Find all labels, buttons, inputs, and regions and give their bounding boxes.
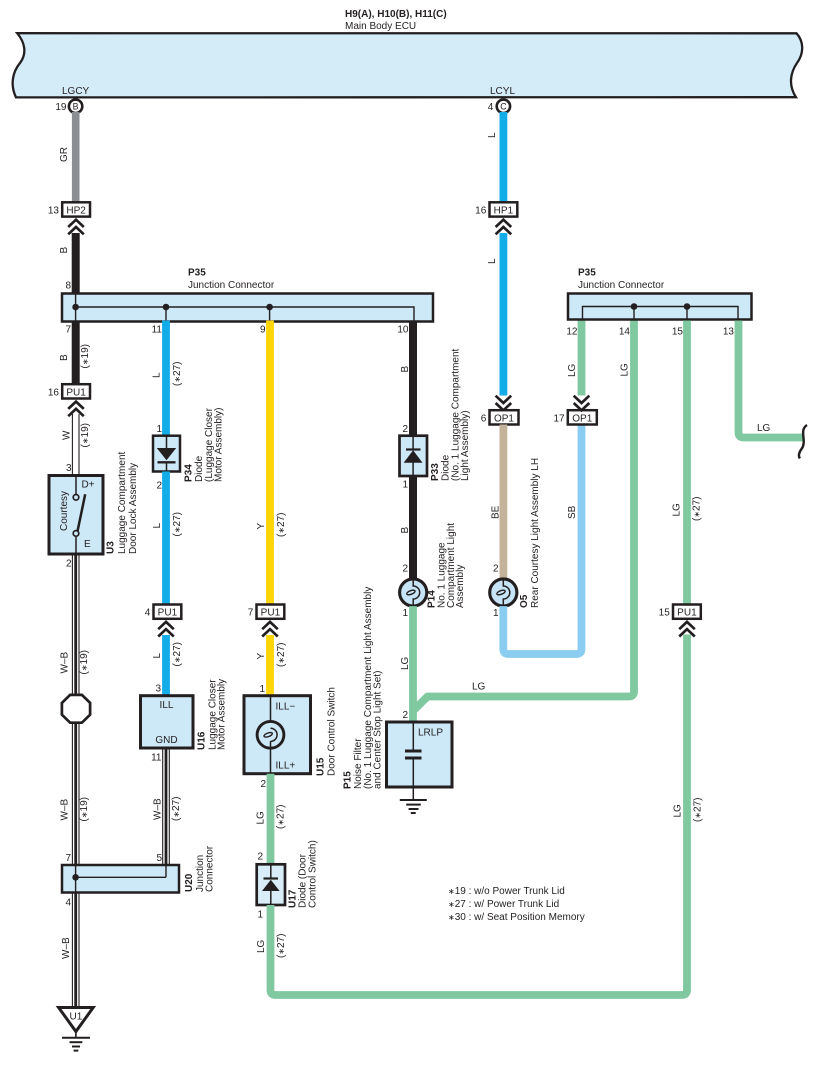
svg-text:P34: P34 <box>184 464 195 482</box>
svg-text:P15: P15 <box>343 771 354 789</box>
switch U3 Luggage Compartment Door Lock Assembly (Courtesy) <box>49 451 139 554</box>
chevron up below PU1-4 <box>158 622 174 637</box>
svg-text:L: L <box>152 372 163 378</box>
svg-text:8: 8 <box>65 281 71 292</box>
svg-text:B: B <box>59 247 70 254</box>
svg-text:(∗27): (∗27) <box>692 497 703 522</box>
svg-text:11: 11 <box>152 325 163 336</box>
svg-text:BE: BE <box>491 505 502 519</box>
svg-text:LGCY: LGCY <box>62 86 90 97</box>
svg-text:H9(A), H10(B), H11(C): H9(A), H10(B), H11(C) <box>345 9 447 20</box>
connector HP1 pin 16 <box>475 202 517 216</box>
switch U15 Door Control Switch <box>244 687 338 776</box>
svg-text:∗27 : w/ Power Trunk Lid: ∗27 : w/ Power Trunk Lid <box>448 899 559 910</box>
wire Y (*27) yellow from P35-9 <box>266 321 274 605</box>
svg-text:LG: LG <box>620 363 631 377</box>
svg-text:P35: P35 <box>188 268 206 279</box>
svg-text:(∗27): (∗27) <box>276 513 287 538</box>
node LCYL pin 4 (C) <box>488 86 516 113</box>
junction connector P35 (left) <box>62 268 433 322</box>
svg-text:LG: LG <box>567 363 578 377</box>
connector HP2 pin 13 <box>48 202 90 216</box>
svg-text:P35: P35 <box>578 268 596 279</box>
svg-text:Junction Connector: Junction Connector <box>578 280 665 291</box>
svg-text:10: 10 <box>397 325 409 336</box>
svg-text:U15: U15 <box>316 757 327 776</box>
svg-text:L: L <box>487 258 498 264</box>
svg-text:4: 4 <box>65 898 71 909</box>
svg-text:GR: GR <box>59 147 70 162</box>
svg-text:Door Control Switch: Door Control Switch <box>327 687 338 776</box>
svg-text:4: 4 <box>145 608 151 619</box>
junction connector P35 (right) <box>568 268 752 320</box>
svg-text:D+: D+ <box>82 480 95 491</box>
svg-text:(∗27): (∗27) <box>276 643 287 668</box>
svg-text:2: 2 <box>260 779 266 790</box>
svg-text:7: 7 <box>65 325 71 336</box>
splice octagon <box>62 695 90 723</box>
svg-text:LG: LG <box>256 939 267 953</box>
svg-text:∗19 : w/o Power Trunk Lid: ∗19 : w/o Power Trunk Lid <box>448 886 565 897</box>
wire LG green P35-12 to OP1-17 <box>578 321 586 396</box>
svg-text:13: 13 <box>48 205 60 216</box>
svg-text:GND: GND <box>155 735 177 746</box>
wire SB sky blue O5 to OP1-17 <box>503 425 581 655</box>
svg-text:1: 1 <box>493 608 499 619</box>
svg-text:5: 5 <box>156 853 162 864</box>
ECU H9(A),H10(B),H11(C) Main Body ECU band <box>13 9 803 97</box>
wire continuation squiggle <box>799 425 807 459</box>
svg-text:2: 2 <box>402 564 408 575</box>
svg-text:P33: P33 <box>430 463 441 481</box>
svg-text:PU1: PU1 <box>158 608 178 619</box>
svg-text:4: 4 <box>488 102 494 113</box>
svg-text:Main Body ECU: Main Body ECU <box>345 21 416 32</box>
svg-text:1: 1 <box>402 480 408 491</box>
svg-text:L: L <box>152 523 163 529</box>
wire W-B (*27) from U16 to U20 <box>163 748 170 865</box>
svg-text:(∗27): (∗27) <box>276 934 287 959</box>
wire W-B (*19) lower <box>72 723 79 866</box>
svg-text:1: 1 <box>402 608 408 619</box>
svg-text:W–B: W–B <box>61 937 72 959</box>
svg-text:HP2: HP2 <box>66 205 86 216</box>
svg-text:15: 15 <box>659 608 671 619</box>
svg-text:(∗19): (∗19) <box>79 797 90 822</box>
diode U17 (Door Control Switch) <box>257 840 319 908</box>
connector PU1 pin 15 <box>659 605 701 619</box>
wire B black P33 to P14 <box>409 476 417 579</box>
chevron up below PU1-7 <box>262 622 278 637</box>
ground below P15 <box>400 800 427 813</box>
diode P33 (No. 1 Luggage Compartment Light Assembly) <box>400 348 472 481</box>
wire B (*19) <box>72 321 80 385</box>
svg-text:2: 2 <box>156 481 162 492</box>
chevron up below PU1-15 <box>679 622 695 637</box>
svg-text:U1: U1 <box>70 1012 83 1023</box>
wire GR gray <box>72 112 80 203</box>
svg-text:LG: LG <box>673 804 684 818</box>
svg-text:16: 16 <box>48 387 60 398</box>
chevron up below HP1 <box>496 220 512 235</box>
noise filter P15 (capacitor LRLP) <box>343 587 453 800</box>
wire LG green P14 down to P15 <box>409 606 417 722</box>
wire B black from P35-10 <box>409 321 417 438</box>
svg-text:3: 3 <box>66 463 72 474</box>
wire W-B (*19) upper <box>72 554 79 695</box>
svg-text:U3: U3 <box>106 541 117 554</box>
svg-text:(∗27): (∗27) <box>693 798 704 823</box>
svg-text:Light Assembly): Light Assembly) <box>460 410 471 481</box>
svg-text:Motor Assembly): Motor Assembly) <box>214 408 225 482</box>
svg-text:Control Switch): Control Switch) <box>308 840 319 908</box>
wire W-B to ground <box>72 893 79 1008</box>
svg-text:Y: Y <box>256 653 267 660</box>
svg-text:LG: LG <box>400 656 411 670</box>
svg-text:ILL: ILL <box>160 700 174 711</box>
wire L (*27) blue middle <box>162 472 170 605</box>
bulb P14 No. 1 Luggage Compartment Light Assembly <box>400 523 466 608</box>
svg-text:Door Lock Assembly: Door Lock Assembly <box>128 463 139 554</box>
svg-text:(∗27): (∗27) <box>172 512 183 537</box>
svg-text:(∗19): (∗19) <box>80 344 91 369</box>
svg-text:Courtesy: Courtesy <box>59 491 70 531</box>
svg-text:14: 14 <box>619 327 631 338</box>
svg-text:W–B: W–B <box>60 799 71 821</box>
svg-text:(∗27): (∗27) <box>172 362 183 387</box>
svg-text:PU1: PU1 <box>66 387 86 398</box>
chevron down above OP1-6 <box>496 396 512 411</box>
svg-text:LG: LG <box>757 423 771 434</box>
svg-text:15: 15 <box>672 327 684 338</box>
svg-text:2: 2 <box>493 564 499 575</box>
svg-text:L: L <box>152 653 163 659</box>
svg-text:ILL+: ILL+ <box>276 761 296 772</box>
svg-text:B: B <box>73 102 79 112</box>
svg-text:Connector: Connector <box>205 845 216 892</box>
svg-text:12: 12 <box>566 327 578 338</box>
svg-text:Motor Assembly: Motor Assembly <box>217 679 228 750</box>
svg-text:B: B <box>400 527 411 534</box>
svg-text:6: 6 <box>481 413 487 424</box>
svg-text:13: 13 <box>723 327 735 338</box>
svg-text:U16: U16 <box>197 731 208 750</box>
svg-text:(∗19): (∗19) <box>79 650 90 675</box>
svg-text:(∗27): (∗27) <box>171 797 182 822</box>
wire Y (*27) yellow lower <box>266 635 274 696</box>
wire LG green P35-13 to right edge <box>739 321 805 438</box>
svg-text:9: 9 <box>260 325 266 336</box>
svg-text:Y: Y <box>256 523 267 530</box>
pins 12,14,15,13 of P35 right <box>566 327 734 338</box>
node LGCY pin 19 (B) <box>55 86 89 113</box>
svg-text:∗30 : w/ Seat Position Memory: ∗30 : w/ Seat Position Memory <box>448 912 585 923</box>
svg-text:U20: U20 <box>184 873 195 892</box>
wire W (*19) white <box>72 414 79 476</box>
svg-text:11: 11 <box>151 753 162 764</box>
svg-text:LG: LG <box>672 503 683 517</box>
wire BE beige OP1-6 to O5 <box>499 425 507 580</box>
svg-text:2: 2 <box>402 424 408 435</box>
svg-text:7: 7 <box>65 853 71 864</box>
diode P34 (Luggage Closer Motor Assembly) <box>153 407 225 482</box>
svg-text:OP1: OP1 <box>494 413 514 424</box>
svg-text:1: 1 <box>156 424 162 435</box>
svg-text:2: 2 <box>257 852 263 863</box>
svg-text:(∗19): (∗19) <box>80 423 91 448</box>
svg-text:PU1: PU1 <box>261 608 281 619</box>
svg-text:(∗27): (∗27) <box>276 805 287 830</box>
wire L (*27) blue from P35-11 <box>162 321 170 437</box>
wire B black upper <box>72 233 80 295</box>
svg-text:W–B: W–B <box>60 652 71 674</box>
svg-text:C: C <box>500 102 507 112</box>
svg-text:SB: SB <box>567 505 578 519</box>
connector OP1 pin 17 <box>553 410 596 424</box>
bulb O5 Rear Courtesy Light Assembly LH <box>490 458 541 608</box>
svg-text:17: 17 <box>553 413 565 424</box>
connector PU1 pin 4 <box>145 605 182 619</box>
svg-text:E: E <box>84 539 91 550</box>
svg-text:O5: O5 <box>519 594 530 608</box>
connector PU1 pin 16 <box>48 384 90 398</box>
svg-text:LCYL: LCYL <box>490 86 515 97</box>
wire LG green horizontal from P35-14 <box>414 321 634 711</box>
wire L blue from LCYL <box>499 112 507 203</box>
svg-text:LG: LG <box>472 682 486 693</box>
svg-text:2: 2 <box>66 559 72 570</box>
note legend *19 *27 *30 <box>448 886 585 923</box>
wire L (*27) blue lower <box>162 635 170 696</box>
svg-text:and Center Stop Light Set): and Center Stop Light Set) <box>373 671 384 789</box>
svg-text:16: 16 <box>475 205 487 216</box>
svg-text:(∗27): (∗27) <box>172 642 183 667</box>
svg-text:Rear Courtesy Light Assembly L: Rear Courtesy Light Assembly LH <box>530 458 541 608</box>
svg-text:ILL−: ILL− <box>276 702 296 713</box>
svg-text:1: 1 <box>259 684 265 695</box>
connector PU1 pin 7 <box>248 605 285 619</box>
wire LG (*27) green U17 down and across to PU1-15 <box>271 635 688 996</box>
chevron down above OP1-17 <box>574 396 590 411</box>
svg-text:B: B <box>59 354 70 361</box>
wire L blue HP1 to OP1-6 <box>499 233 507 396</box>
svg-text:2: 2 <box>402 710 408 721</box>
svg-text:LG: LG <box>256 811 267 825</box>
chevron up below HP2 <box>68 220 84 235</box>
svg-text:7: 7 <box>248 608 254 619</box>
svg-text:1: 1 <box>257 910 263 921</box>
svg-text:PU1: PU1 <box>677 608 697 619</box>
svg-text:B: B <box>400 366 411 373</box>
svg-text:W: W <box>62 430 73 440</box>
ground U1 <box>59 1008 94 1051</box>
svg-text:LRLP: LRLP <box>418 728 443 739</box>
connector OP1 pin 6 <box>481 410 519 424</box>
svg-text:Assembly: Assembly <box>455 565 466 608</box>
component U16 Luggage Closer Motor Assembly <box>141 679 228 750</box>
chevron up below PU1-16 <box>68 402 84 417</box>
svg-text:Luggage Compartment: Luggage Compartment <box>117 451 128 554</box>
wire LG (*27) green P35-15 to PU1-15 <box>683 321 691 605</box>
junction connector U20 <box>62 845 216 892</box>
svg-text:L: L <box>487 132 498 138</box>
svg-text:19: 19 <box>55 102 67 113</box>
svg-text:W–B: W–B <box>153 798 164 820</box>
wire LG (*27) green U15 to U17 <box>267 774 275 865</box>
svg-text:HP1: HP1 <box>494 205 514 216</box>
svg-text:OP1: OP1 <box>572 413 592 424</box>
pins 7,11,9,10 of P35 left <box>65 325 408 336</box>
svg-text:Junction Connector: Junction Connector <box>188 280 275 291</box>
svg-text:3: 3 <box>155 684 161 695</box>
